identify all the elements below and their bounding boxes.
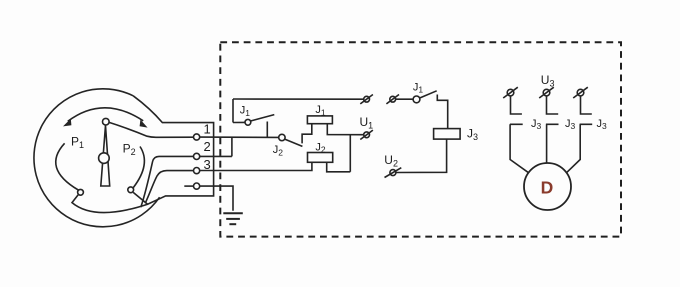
svg-text:2: 2: [204, 139, 211, 154]
svg-text:1: 1: [204, 121, 211, 136]
svg-text:D: D: [541, 178, 554, 198]
svg-text:3: 3: [204, 157, 211, 172]
